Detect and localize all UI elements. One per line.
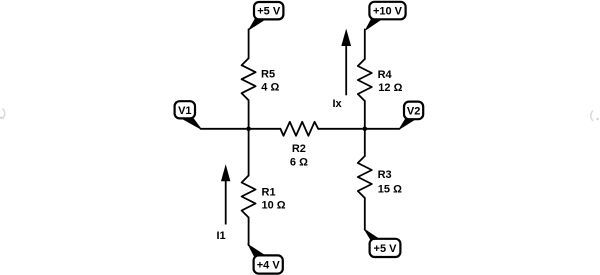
power callout +10 V (top right) box <box>366 2 406 30</box>
node V1 junction dot <box>246 127 251 132</box>
node V2 junction dot <box>363 127 368 132</box>
wire left branch middle (R5 to R1 through node V1) <box>248 100 250 175</box>
svg-text:10 Ω: 10 Ω <box>262 200 286 212</box>
svg-text:R3: R3 <box>378 169 392 181</box>
wire horizontal V1 side <box>201 128 281 130</box>
wire bottom-right from R3 to +5V callout <box>364 198 366 230</box>
svg-text:I1: I1 <box>217 230 226 242</box>
svg-text:6 Ω: 6 Ω <box>290 157 308 169</box>
power callout +4 V (bottom left) box <box>248 245 282 274</box>
svg-text:4 Ω: 4 Ω <box>261 81 279 93</box>
svg-text:+4 V: +4 V <box>257 260 281 272</box>
svg-text:R4: R4 <box>378 69 393 81</box>
current arrow I1 <box>221 164 230 224</box>
resistor R2 <box>280 122 318 136</box>
wire bottom-left from R1 to +4V callout <box>248 218 250 246</box>
svg-text:V1: V1 <box>178 105 191 117</box>
svg-text:+10 V: +10 V <box>373 6 403 18</box>
svg-text:+5 V: +5 V <box>257 6 281 18</box>
power callout +5 V (bottom right) box <box>365 229 401 257</box>
resistor R5 <box>242 58 256 100</box>
resistor R1 <box>242 176 256 218</box>
wire top-left from +5V callout to R5 <box>248 29 250 58</box>
current arrow Ix <box>341 29 351 96</box>
svg-text:R1: R1 <box>262 187 276 199</box>
svg-text:R5: R5 <box>261 68 275 80</box>
svg-text:12 Ω: 12 Ω <box>378 82 402 94</box>
wire horizontal V2 side <box>318 128 399 130</box>
faint edge artifact right <box>591 111 593 122</box>
power callout +5 V (top left) box <box>249 2 283 30</box>
node callout V2 box <box>399 102 423 129</box>
svg-text:V2: V2 <box>407 105 420 117</box>
wire top-right from +10V callout to R4 <box>364 29 366 59</box>
resistor R4 <box>358 59 372 101</box>
svg-text:15 Ω: 15 Ω <box>378 184 402 196</box>
svg-text:Ix: Ix <box>333 98 343 110</box>
svg-text:+5 V: +5 V <box>374 243 398 255</box>
svg-text:R2: R2 <box>292 143 306 155</box>
wire right branch middle (R4 to R3 through node V2) <box>364 101 366 156</box>
faint edge artifact left <box>3 109 5 120</box>
resistor R3 <box>358 156 372 198</box>
node callout V1 box <box>175 101 201 129</box>
